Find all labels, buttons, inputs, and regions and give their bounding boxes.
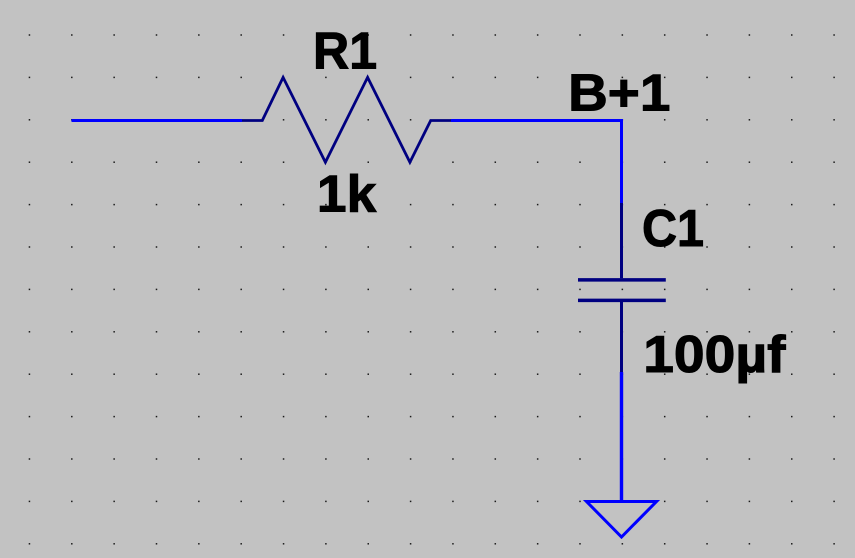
svg-text:100µf: 100µf xyxy=(643,325,785,383)
svg-text:1k: 1k xyxy=(317,165,377,223)
svg-text:B+1: B+1 xyxy=(568,65,670,122)
svg-text:R1: R1 xyxy=(313,22,377,80)
svg-text:C1: C1 xyxy=(642,198,704,257)
